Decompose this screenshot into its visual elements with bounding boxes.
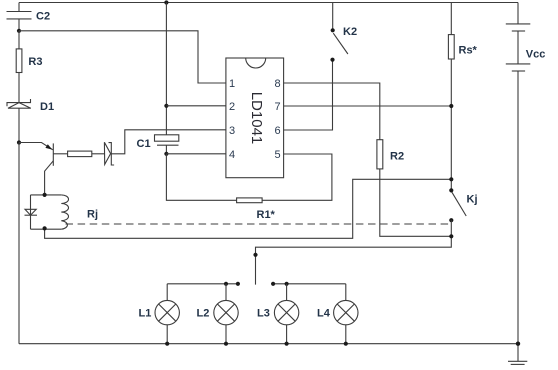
- node pin 7 / Rs junction: [449, 104, 453, 108]
- wire Rj coil bottom to Kj top junction: [45, 179, 452, 238]
- wire pin 6 to K2: [284, 60, 333, 130]
- svg-text:R3: R3: [28, 56, 42, 68]
- svg-text:8: 8: [275, 78, 281, 90]
- svg-text:6: 6: [275, 125, 281, 137]
- wire top rail down to C1: [165, 3, 167, 135]
- diode Z1 (zener, base clamp): [104, 142, 114, 165]
- lamp L2: [197, 284, 239, 344]
- resistor Rs*: [448, 35, 477, 59]
- svg-text:D1: D1: [40, 101, 54, 113]
- lamp L3: [257, 284, 299, 344]
- svg-text:Rj: Rj: [87, 209, 98, 221]
- svg-text:K2: K2: [343, 26, 357, 38]
- wire junction to pin 2: [166, 105, 226, 107]
- node right bus contact end: [271, 282, 275, 286]
- svg-text:R1*: R1*: [257, 209, 276, 221]
- svg-text:L1: L1: [139, 308, 152, 320]
- lamp L1: [139, 284, 180, 344]
- wire supply rail down through Rs*: [450, 3, 452, 191]
- ground: [508, 361, 527, 364]
- wire battery to ground: [517, 71, 519, 361]
- svg-text:LD1041: LD1041: [248, 92, 265, 145]
- svg-text:L3: L3: [257, 308, 270, 320]
- svg-text:L2: L2: [197, 308, 210, 320]
- node ground junction: [516, 342, 520, 346]
- wire junction to pin 4: [166, 153, 226, 155]
- capacitor C2: [7, 3, 51, 31]
- resistor R4 (base resistor): [68, 151, 92, 157]
- wire pin 8 to R2: [284, 83, 380, 140]
- switch K2: [330, 3, 357, 62]
- svg-text:7: 7: [275, 101, 281, 113]
- node top rail / C1 branch: [164, 0, 168, 4]
- svg-text:Vcc: Vcc: [526, 49, 546, 61]
- wire bottom rail: [19, 343, 518, 345]
- wire C2 junction down to R3: [18, 31, 20, 49]
- node C2 bottom junction: [17, 29, 21, 33]
- op-amp U1 LD1041: [226, 58, 284, 178]
- node L4 bottom: [344, 342, 348, 346]
- node Kj upper junction: [449, 177, 453, 181]
- wire R4 to Z1: [92, 153, 105, 155]
- node L3 bottom: [285, 342, 289, 346]
- switch Kj: [449, 188, 477, 222]
- wire left rail down to bottom rail: [18, 143, 20, 344]
- resistor R3: [16, 49, 42, 73]
- wire C2 junction to pin 1: [19, 31, 226, 83]
- wire Kj bottom to lamp selector pole: [256, 220, 452, 284]
- svg-text:1: 1: [229, 78, 235, 90]
- svg-text:C1: C1: [137, 138, 151, 150]
- resistor R1*: [237, 198, 276, 221]
- node Rj top: [43, 193, 47, 197]
- svg-text:R2: R2: [390, 151, 404, 163]
- wire Z1 to pin 3: [111, 130, 226, 154]
- wire top supply rail: [19, 2, 518, 4]
- svg-text:5: 5: [275, 149, 281, 161]
- svg-text:Rs*: Rs*: [459, 44, 478, 56]
- lamp L4: [317, 284, 358, 344]
- node lamp selector pole: [253, 253, 257, 257]
- node L3 tap: [285, 282, 289, 286]
- svg-text:2: 2: [229, 101, 235, 113]
- svg-text:C2: C2: [36, 11, 50, 23]
- node pin 4 junction: [164, 152, 168, 156]
- relay coil Rj: [31, 195, 99, 229]
- diode D2 (flyback): [25, 209, 38, 215]
- wire D1 to emitter junction: [18, 108, 20, 142]
- node emitter junction: [17, 140, 21, 144]
- wire lamp bus left: [167, 283, 238, 285]
- wire C1 junction down to R1*: [166, 154, 236, 201]
- battery Vcc: [506, 3, 546, 72]
- svg-text:3: 3: [229, 125, 235, 137]
- svg-text:4: 4: [229, 149, 235, 161]
- mechanical link Rj to Kj (dashed): [66, 223, 449, 225]
- node L2 tap: [224, 282, 228, 286]
- svg-text:Kj: Kj: [467, 194, 478, 206]
- node L2 bottom: [224, 342, 228, 346]
- capacitor C1: [137, 135, 179, 154]
- wire pin 7 to Rs junction: [284, 105, 452, 107]
- wire lamp bus right: [273, 283, 346, 285]
- svg-text:L4: L4: [317, 308, 331, 320]
- wire R3 to D1: [18, 73, 20, 103]
- node Rj bottom: [43, 226, 47, 230]
- node Kj / R2 junction: [449, 234, 453, 238]
- node left bus contact end: [236, 282, 240, 286]
- wire R2 bottom to Kj lower junction: [380, 169, 452, 236]
- transistor Q1 (PNP): [19, 143, 68, 195]
- diode D1 (zener): [7, 99, 54, 113]
- node L1 bottom: [165, 342, 169, 346]
- node pin 2 junction: [164, 104, 168, 108]
- resistor R2: [377, 140, 404, 169]
- wire R1* to pin 5: [262, 154, 332, 200]
